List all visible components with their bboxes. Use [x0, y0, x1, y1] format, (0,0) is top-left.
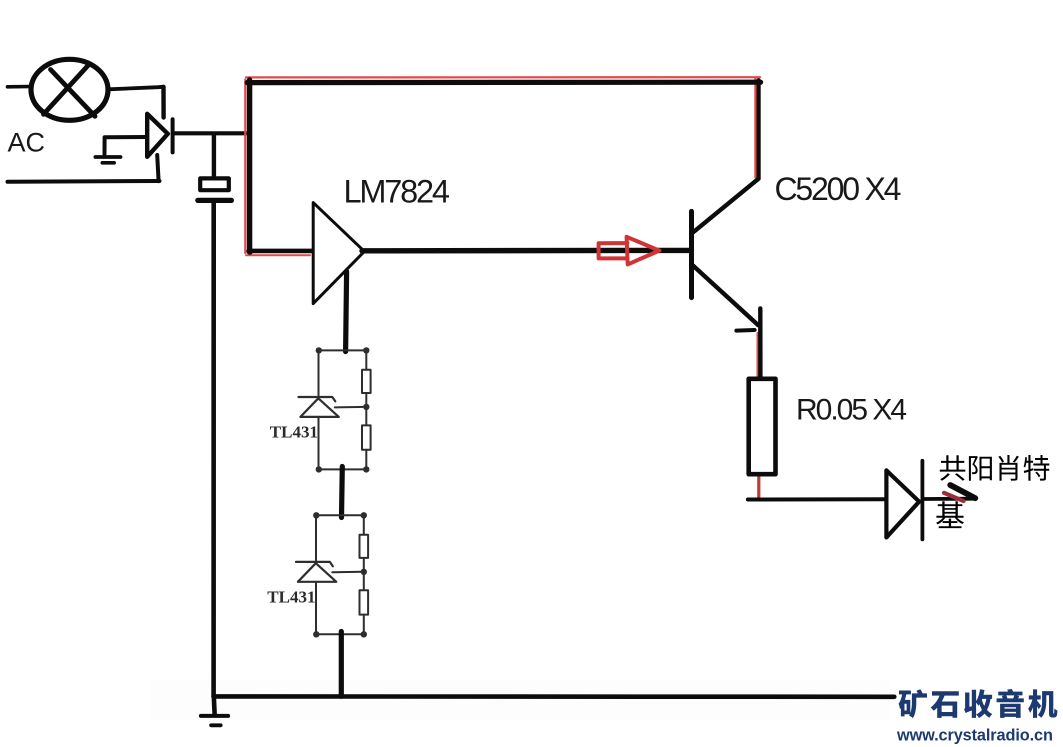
wire: cathode to loop node — [174, 131, 248, 135]
U3 mid node dot — [361, 569, 367, 575]
U2 right rail — [365, 350, 367, 469]
U2 reference wire — [335, 406, 367, 409]
red trace: input wire — [246, 254, 310, 256]
U2 node dots bottom — [316, 466, 322, 472]
U3 node dots bottom — [313, 631, 319, 637]
U3 shunt triangle — [298, 563, 336, 582]
U2 left rail — [318, 350, 320, 469]
wire: after diode — [924, 497, 974, 501]
lamp B1 (AC source, circle with X) — [31, 59, 108, 120]
wire: left lead to lamp — [8, 85, 32, 89]
wire: loop to LM7824 input — [249, 249, 314, 254]
U3 cathode bar — [296, 562, 333, 566]
output end arrowhead — [950, 485, 975, 498]
U3 bottom rail — [316, 633, 364, 635]
U2 resistor lower — [362, 425, 371, 449]
diode D1 cathode bar — [171, 119, 175, 152]
svg-text:R0.05 X4: R0.05 X4 — [796, 394, 906, 427]
ground G2 bar2 — [211, 723, 221, 727]
junction dot top-right corner — [756, 79, 762, 85]
U3 right rail — [363, 515, 365, 634]
junction node at loop bottom-left — [246, 248, 253, 255]
background shading patch — [150, 680, 890, 720]
red trace: left vertical — [244, 80, 246, 254]
red trace: resistor to output wire — [757, 473, 760, 499]
svg-text:AC: AC — [8, 128, 46, 158]
watermark 矿石收音机 — [899, 689, 927, 718]
red shadow of end arrow — [944, 493, 964, 501]
wire: bottom lead up to diode — [157, 155, 158, 181]
wire: emitter down to resistor — [758, 308, 763, 380]
U2 resistor upper — [362, 370, 371, 393]
emitter arrow tick — [736, 328, 754, 333]
wire: LM7824 ground pin down — [346, 272, 347, 352]
transistor Q1 collector — [693, 179, 759, 233]
wire: cap C1 down to ground rail — [211, 201, 216, 697]
diode D2 cathode bar — [921, 461, 925, 540]
U2 cathode bar — [299, 397, 336, 401]
red trace: emitter vertical — [756, 333, 758, 379]
wire: AC bottom lead — [8, 179, 160, 184]
diode D2 schottky triangle — [886, 470, 919, 537]
wire: down to diode D1 — [161, 87, 166, 118]
wire: right vertical (collector feed) — [756, 80, 760, 178]
U3 top rail — [316, 514, 364, 516]
U3 left rail — [315, 515, 317, 634]
U3 reference wire — [332, 571, 364, 574]
resistor R1 (R0.05) body — [749, 379, 776, 474]
red trace: right vertical — [754, 78, 756, 178]
svg-text:TL431: TL431 — [270, 423, 318, 442]
wire: top rail — [247, 80, 760, 86]
U3 resistor upper — [360, 535, 369, 558]
diode D1 triangle — [147, 114, 168, 157]
U2 top rail — [319, 349, 367, 351]
wire: bottom ground rail — [214, 694, 895, 699]
svg-text:TL431: TL431 — [267, 588, 315, 607]
red trace: top wire — [246, 76, 760, 78]
U3 resistor lower — [360, 590, 369, 614]
red current arrow — [599, 237, 660, 265]
ground G2 bar1 — [201, 714, 228, 718]
ground G2 stub — [212, 696, 217, 713]
wire: output rail — [748, 497, 884, 501]
svg-text:LM7824: LM7824 — [344, 174, 450, 210]
svg-text:C5200 X4: C5200 X4 — [775, 171, 901, 207]
wire: U3 to ground rail — [339, 632, 344, 697]
wire: node down to cap C1 — [212, 135, 216, 180]
wire: left vertical of loop — [247, 80, 252, 251]
wire: LM7824 output to base — [362, 248, 691, 254]
U2 node dots top — [316, 347, 322, 353]
U2 mid node dot — [363, 404, 369, 410]
capacitor C1 top plate (box) — [200, 178, 229, 190]
wire: lamp to corner above diode — [109, 87, 164, 90]
regulator LM7824 triangle — [313, 203, 364, 304]
label 共阳肖特 — [940, 455, 966, 481]
transistor Q1 emitter — [693, 265, 759, 325]
capacitor C1 bottom plate — [198, 198, 232, 203]
wire: U2 to U3 — [339, 467, 345, 518]
wire: anode L to ground — [105, 137, 146, 154]
label 基 — [936, 501, 964, 528]
U3 node dots top — [313, 512, 319, 518]
U2 shunt triangle — [300, 398, 338, 417]
svg-text:www.crystalradio.cn: www.crystalradio.cn — [896, 727, 1053, 745]
ground G1 — [95, 155, 120, 159]
transistor Q1 base bar — [689, 211, 694, 297]
U2 bottom rail — [319, 468, 367, 470]
